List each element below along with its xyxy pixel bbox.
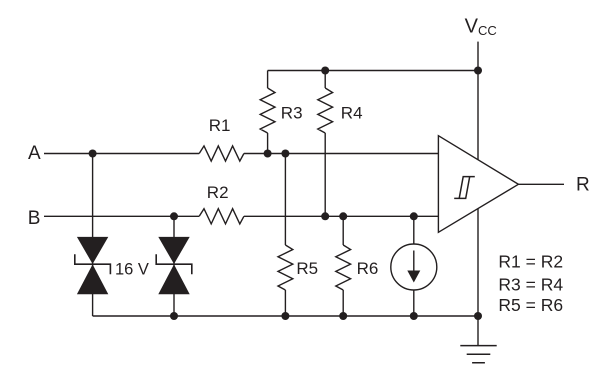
note R1 = R2 bbox=[498, 251, 563, 271]
wire: top Vcc rail bbox=[268, 70, 478, 72]
wire: R3 bottom lead to node A bbox=[267, 133, 269, 154]
label 16 V bbox=[115, 260, 149, 278]
ground bbox=[460, 346, 496, 363]
wire: zener D1 column from node A to ground rail bbox=[92, 154, 94, 317]
junction dot: D2 bottom on ground rail bbox=[170, 312, 178, 320]
resistor R1 bbox=[199, 146, 244, 161]
wire: comparator output bbox=[518, 183, 564, 185]
wire: R5 top lead from node A crossing B row bbox=[284, 154, 286, 246]
resistor R5 bbox=[278, 245, 293, 290]
junction dot: R6 bottom on ground rail bbox=[339, 312, 347, 320]
wire: input B to R2 bbox=[44, 215, 199, 217]
label R3 bbox=[281, 104, 303, 123]
svg-text:R6: R6 bbox=[357, 259, 379, 278]
wire: bottom ground rail bbox=[93, 315, 478, 317]
junction dot: R4 bottom on B row bbox=[321, 212, 329, 220]
junction dot: R6 top on B row bbox=[339, 212, 347, 220]
svg-text:16 V: 16 V bbox=[115, 260, 149, 278]
resistor R3 bbox=[260, 88, 275, 133]
wire: zener D2 column from node B to ground rail bbox=[173, 216, 175, 316]
zener diode D1 (bidirectional 16 V clamp) bbox=[75, 237, 111, 294]
node A label bbox=[28, 143, 41, 164]
wire: current source bottom lead to ground rail bbox=[413, 290, 415, 316]
Vcc label bbox=[465, 15, 497, 38]
wire: R5 bottom lead to ground rail bbox=[284, 290, 286, 316]
junction dot: R5 top on A row bbox=[281, 150, 289, 158]
junction dot: current source top on B row bbox=[410, 212, 418, 220]
label R1 bbox=[209, 116, 231, 135]
junction dot: B to D2 bbox=[170, 212, 178, 220]
label R4 bbox=[341, 104, 363, 123]
svg-text:R3: R3 bbox=[281, 104, 303, 123]
svg-text:R1 = R2: R1 = R2 bbox=[498, 251, 563, 271]
junction dot: Vcc stub on Vcc rail bbox=[474, 67, 482, 75]
svg-text:VCC: VCC bbox=[465, 15, 497, 38]
svg-text:R5 = R6: R5 = R6 bbox=[498, 295, 563, 315]
svg-text:R3 = R4: R3 = R4 bbox=[498, 274, 563, 294]
wire: A row from R1 to comparator plus input bbox=[244, 153, 439, 155]
note R5 = R6 bbox=[498, 295, 563, 315]
hysteresis symbol bbox=[454, 177, 475, 199]
svg-text:R4: R4 bbox=[341, 104, 363, 123]
note R3 = R4 bbox=[498, 274, 563, 294]
junction dot: ground stub on ground rail bbox=[474, 312, 482, 320]
junction dot: A to D1 bbox=[89, 150, 97, 158]
junction dot: current source bottom on ground rail bbox=[410, 312, 418, 320]
op-amp comparator U1 bbox=[438, 136, 518, 233]
junction dot: R4 top on Vcc rail bbox=[321, 67, 329, 75]
wire: B row from R2 to comparator minus input bbox=[244, 215, 439, 217]
label R5 bbox=[296, 259, 318, 278]
resistor R2 bbox=[199, 209, 244, 224]
wire: R6 top lead from node B bbox=[342, 216, 344, 245]
wire: R4 top lead from Vcc rail bbox=[324, 71, 326, 89]
resistor R4 bbox=[318, 88, 333, 133]
svg-text:R: R bbox=[576, 174, 590, 195]
node B label bbox=[28, 208, 41, 229]
resistor R6 bbox=[336, 245, 351, 290]
junction dot: R5 bottom on ground rail bbox=[281, 312, 289, 320]
junction dot: R3 bottom on A row bbox=[264, 150, 272, 158]
svg-text:R5: R5 bbox=[296, 259, 318, 278]
wire: R4 bottom lead crossing A row to node B bbox=[324, 133, 326, 216]
current source I1 bbox=[391, 244, 437, 290]
label R6 bbox=[357, 259, 379, 278]
wire: R3 top lead from Vcc rail bbox=[267, 71, 269, 89]
wire: Vcc stub down to comparator power pin bbox=[477, 42, 479, 160]
label R2 bbox=[207, 183, 229, 202]
wire: comparator ground pin down to ground symbol bbox=[477, 209, 479, 346]
svg-text:R2: R2 bbox=[207, 183, 229, 202]
zener diode D2 (bidirectional clamp) bbox=[156, 237, 192, 294]
svg-text:A: A bbox=[28, 143, 41, 164]
wire: input A to R1 bbox=[44, 153, 199, 155]
svg-text:B: B bbox=[28, 208, 41, 229]
wire: R6 bottom lead to ground rail bbox=[342, 290, 344, 316]
svg-text:R1: R1 bbox=[209, 116, 231, 135]
node R output label bbox=[576, 174, 590, 195]
wire: current source top lead from node B bbox=[413, 216, 415, 244]
